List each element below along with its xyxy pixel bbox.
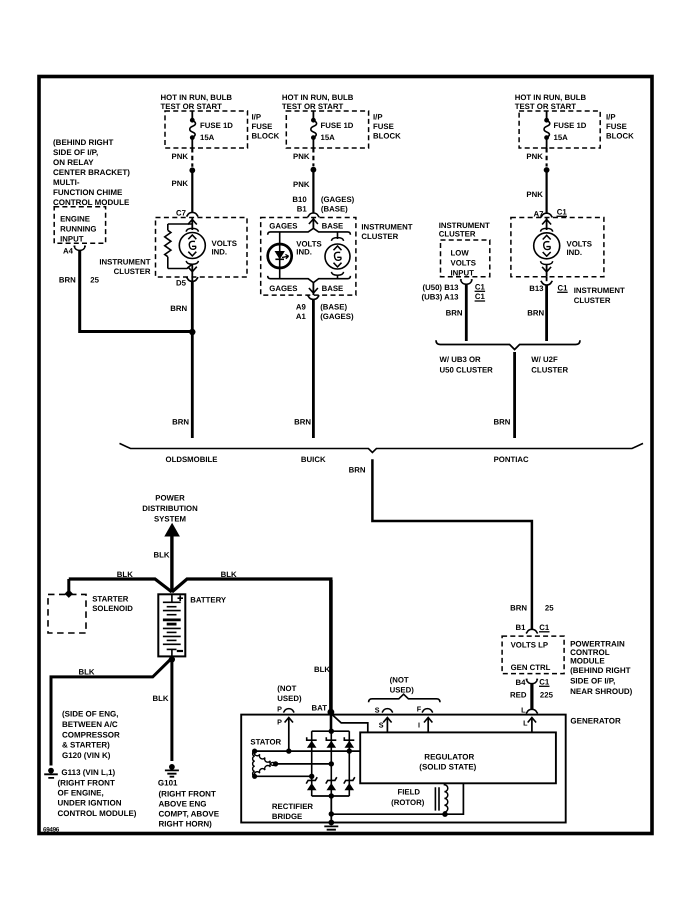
svg-text:CLUSTER: CLUSTER xyxy=(361,232,398,241)
svg-text:PNK: PNK xyxy=(526,190,543,199)
label VOLTS IND. (Olds) xyxy=(212,239,237,257)
brace S F not used xyxy=(369,694,440,702)
svg-text:USED): USED) xyxy=(277,694,302,703)
svg-text:BASE: BASE xyxy=(322,284,344,293)
label G120 block xyxy=(62,710,120,760)
svg-text:STATOR: STATOR xyxy=(250,738,281,747)
svg-text:& STARTER): & STARTER) xyxy=(62,741,110,750)
svg-text:B1: B1 xyxy=(516,623,527,632)
label C1 (A7) underlined xyxy=(557,208,568,217)
label FUSE 1D 15A (Pontiac) xyxy=(554,121,587,142)
svg-text:25: 25 xyxy=(545,604,554,613)
svg-text:BAT: BAT xyxy=(312,704,328,713)
svg-text:W/ UB3 OR: W/ UB3 OR xyxy=(440,355,482,364)
label REGULATOR (SOLID STATE) xyxy=(419,753,476,772)
label G101 block xyxy=(158,779,220,829)
svg-text:FUSE: FUSE xyxy=(373,122,394,131)
label (NOT USED) S F xyxy=(390,676,415,695)
fuse 1D 15A (Buick) xyxy=(311,111,317,148)
svg-text:BLK: BLK xyxy=(117,570,133,579)
svg-text:BLOCK: BLOCK xyxy=(373,132,401,141)
svg-text:(GAGES): (GAGES) xyxy=(320,312,354,321)
label circuit 25 xyxy=(90,276,99,285)
label F (outside) xyxy=(417,705,422,714)
svg-text:S: S xyxy=(375,706,380,715)
svg-text:I/P: I/P xyxy=(373,113,383,122)
svg-text:DISTRIBUTION: DISTRIBUTION xyxy=(142,504,198,513)
label VOLTS LP xyxy=(511,641,549,650)
svg-text:BRN: BRN xyxy=(59,276,76,285)
svg-text:PONTIAC: PONTIAC xyxy=(494,455,529,464)
svg-text:HOT IN RUN, BULB: HOT IN RUN, BULB xyxy=(515,93,587,102)
label PNK (Pontiac upper) xyxy=(526,152,543,161)
svg-text:(U50) B13: (U50) B13 xyxy=(423,283,460,292)
terminal F arrow xyxy=(424,718,432,733)
label I/P FUSE BLOCK (Olds) xyxy=(252,113,280,141)
label HOT IN RUN (Pontiac) xyxy=(515,93,587,111)
svg-text:COMPT, ABOVE: COMPT, ABOVE xyxy=(159,809,220,818)
svg-text:BETWEEN A/C: BETWEEN A/C xyxy=(62,720,118,729)
label VOLTS IND. (Buick) xyxy=(296,240,321,257)
wire BRN (low volts) xyxy=(465,284,468,341)
svg-text:CLUSTER: CLUSTER xyxy=(114,267,151,276)
svg-text:(ROTOR): (ROTOR) xyxy=(391,798,425,807)
starter solenoid box xyxy=(48,594,86,633)
svg-text:CLUSTER: CLUSTER xyxy=(531,366,568,375)
label RECTIFIER BRIDGE xyxy=(272,802,314,821)
svg-text:UNDER IGNTION: UNDER IGNTION xyxy=(58,799,122,808)
terminal S arrow xyxy=(383,718,391,733)
wire starter solenoid drop xyxy=(67,579,70,591)
wire PNK to cluster (Buick) xyxy=(312,170,314,213)
label C1 (B1) underlined xyxy=(539,623,550,632)
svg-text:MODULE: MODULE xyxy=(570,657,605,666)
connector C7 cup xyxy=(187,212,199,216)
svg-text:RUNNING: RUNNING xyxy=(60,225,96,234)
wire BLK right bus xyxy=(172,579,331,600)
low volts input box xyxy=(441,240,490,277)
svg-text:BLK: BLK xyxy=(152,694,168,703)
wire BRN to PCM xyxy=(372,459,532,629)
svg-text:HOT IN RUN, BULB: HOT IN RUN, BULB xyxy=(161,93,233,102)
arrow to power distribution xyxy=(164,523,180,537)
svg-text:A1: A1 xyxy=(296,312,307,321)
splice dot (Pontiac) xyxy=(544,167,550,173)
svg-text:C1: C1 xyxy=(557,208,568,217)
svg-text:(GAGES): (GAGES) xyxy=(321,195,355,204)
label BRN (Pontiac right) xyxy=(527,309,544,318)
wire BRN (Pontiac to main brace) xyxy=(513,352,516,438)
label BRN (A4) xyxy=(59,276,76,285)
svg-text:F: F xyxy=(417,705,422,714)
battery B1 xyxy=(158,594,185,656)
svg-text:L: L xyxy=(523,719,528,728)
label (NOT USED) P xyxy=(277,684,302,703)
svg-text:RECTIFIER: RECTIFIER xyxy=(272,802,314,811)
svg-text:C7: C7 xyxy=(176,209,186,218)
label PONTIAC xyxy=(494,455,529,464)
node field bottom xyxy=(442,812,447,817)
svg-text:BRN: BRN xyxy=(510,604,527,613)
label INSTRUMENT CLUSTER (Buick) xyxy=(361,223,412,242)
splice dot (Olds) xyxy=(189,167,195,173)
label I/P FUSE BLOCK (Pontiac) xyxy=(606,113,634,141)
bus bar top (Buick cluster) xyxy=(268,228,351,234)
svg-text:SIDE OF I/P,: SIDE OF I/P, xyxy=(570,677,615,686)
label A9 (BASE) xyxy=(296,303,348,312)
label P (inside) xyxy=(277,718,282,727)
label INSTRUMENT CLUSTER (Olds) xyxy=(99,258,150,277)
label A4 xyxy=(63,246,74,255)
border frame xyxy=(39,77,652,834)
connector D5 cup xyxy=(187,277,199,281)
wire dashed PNK (Olds) xyxy=(191,148,193,167)
ground G113 xyxy=(44,768,58,778)
wire exit arrow (Pontiac cluster) xyxy=(542,265,551,277)
svg-text:BRIDGE: BRIDGE xyxy=(272,812,302,821)
svg-text:VOLTS LP: VOLTS LP xyxy=(511,641,549,650)
chime module box xyxy=(54,207,105,244)
svg-text:(SOLID STATE): (SOLID STATE) xyxy=(419,763,476,772)
node phase C to diode column 1 xyxy=(309,774,314,779)
svg-text:INPUT: INPUT xyxy=(451,269,475,278)
wire PNK to cluster (Pontiac) xyxy=(545,170,547,213)
brace all makes xyxy=(120,443,644,452)
svg-text:PNK: PNK xyxy=(172,152,189,161)
ground generator xyxy=(324,820,338,830)
svg-text:BRN: BRN xyxy=(349,465,366,474)
svg-text:15A: 15A xyxy=(321,133,336,142)
svg-text:BLK: BLK xyxy=(314,665,330,674)
label G113 (VIN L,1) xyxy=(61,768,115,777)
label S (inside) xyxy=(379,721,384,730)
svg-text:C1: C1 xyxy=(558,284,569,293)
connector S cup xyxy=(382,709,393,713)
label FUSE 1D 15A (Olds) xyxy=(200,121,233,142)
diode top 1 xyxy=(307,737,317,748)
node bottom bus center xyxy=(329,793,334,798)
svg-text:C1: C1 xyxy=(539,678,550,687)
rectifier bottom bus xyxy=(312,795,350,797)
label multi-function chime module xyxy=(53,138,130,207)
svg-text:FUSE: FUSE xyxy=(606,122,627,131)
label I/P FUSE BLOCK (Buick) xyxy=(373,113,401,141)
label B1 (BASE) xyxy=(297,205,348,214)
svg-text:HOT IN RUN, BULB: HOT IN RUN, BULB xyxy=(282,93,354,102)
label FIELD (ROTOR) xyxy=(391,788,425,808)
diode bottom 1 xyxy=(306,777,317,790)
label HOT IN RUN (Olds) xyxy=(161,93,233,111)
svg-text:CENTER BRACKET): CENTER BRACKET) xyxy=(53,168,130,177)
svg-text:COMPRESSOR: COMPRESSOR xyxy=(62,730,120,739)
svg-text:REGULATOR: REGULATOR xyxy=(424,753,474,762)
label L (inside) xyxy=(523,719,528,728)
volts indicator bulb (Pontiac) xyxy=(534,228,560,264)
svg-text:PNK: PNK xyxy=(293,180,310,189)
svg-text:FUSE: FUSE xyxy=(252,122,273,131)
svg-text:L: L xyxy=(521,706,526,715)
label BLK (battery top) xyxy=(153,551,169,560)
svg-text:CONTROL MODULE: CONTROL MODULE xyxy=(53,198,130,207)
label BLK (G113 wire) xyxy=(79,668,95,677)
wire PNK to cluster (Olds) xyxy=(191,170,193,212)
svg-text:BRN: BRN xyxy=(527,309,544,318)
connector B4 Y xyxy=(526,679,538,683)
label A1 (GAGES) xyxy=(296,312,354,321)
instrument cluster box (Olds) xyxy=(156,218,248,278)
label P (outside) xyxy=(277,705,282,714)
label B4 xyxy=(516,678,527,687)
label (UB3) A13 C1 xyxy=(422,292,486,302)
wire field return xyxy=(331,783,463,814)
svg-text:(NOT: (NOT xyxy=(390,676,409,685)
field core lines xyxy=(435,787,439,810)
svg-text:GEN CTRL: GEN CTRL xyxy=(511,663,551,672)
svg-text:BLOCK: BLOCK xyxy=(606,132,634,141)
wire stator phase A xyxy=(255,750,361,752)
svg-text:TEST OR START: TEST OR START xyxy=(515,102,577,111)
diode bottom 3 xyxy=(344,777,355,790)
svg-text:RED: RED xyxy=(510,691,527,700)
svg-text:BASE: BASE xyxy=(322,222,344,231)
label BAT xyxy=(312,704,328,713)
diode column 3 wire xyxy=(348,731,350,796)
svg-text:FUSE 1D: FUSE 1D xyxy=(200,121,233,130)
label RED 225 xyxy=(510,691,554,700)
instrument cluster box (Pontiac) xyxy=(511,218,604,277)
label W/ U2F CLUSTER xyxy=(531,355,568,375)
diode top 3 xyxy=(344,737,354,748)
label BRN (low volts) xyxy=(446,309,463,318)
diode column 2 wire xyxy=(330,731,332,796)
label GEN CTRL xyxy=(511,663,551,672)
svg-text:P: P xyxy=(277,705,282,714)
svg-text:W/ U2F: W/ U2F xyxy=(531,355,558,364)
wire bridge to ground xyxy=(330,796,332,823)
rectifier top bus xyxy=(312,730,350,732)
connector low volts Y xyxy=(460,280,473,284)
wire stator phase C xyxy=(255,775,312,777)
svg-text:IND.: IND. xyxy=(567,248,583,257)
svg-text:SIDE OF I/P,: SIDE OF I/P, xyxy=(53,148,98,157)
svg-text:SOLENOID: SOLENOID xyxy=(92,604,133,613)
svg-text:BRN: BRN xyxy=(172,418,189,427)
connector L cup xyxy=(526,709,538,713)
label B10 (GAGES) xyxy=(292,195,354,204)
fuse block box (Olds) xyxy=(165,111,248,148)
svg-text:(RIGHT FRONT: (RIGHT FRONT xyxy=(58,779,115,788)
label BATTERY xyxy=(190,596,227,605)
terminal P arrow xyxy=(285,718,293,752)
svg-text:PNK: PNK xyxy=(172,179,189,188)
svg-text:B10: B10 xyxy=(292,195,307,204)
node phase B to diode column 2 xyxy=(329,761,334,766)
svg-text:BRN: BRN xyxy=(446,309,463,318)
svg-text:CONTROL MODULE): CONTROL MODULE) xyxy=(58,809,137,818)
wire entry arrow (Buick cluster) xyxy=(309,218,318,229)
label BLK (BAT wire) xyxy=(314,665,330,674)
label PNK (Olds lower) xyxy=(172,179,189,188)
svg-text:INPUT: INPUT xyxy=(60,235,84,244)
wire RED 225 xyxy=(530,684,533,710)
svg-text:RIGHT HORN): RIGHT HORN) xyxy=(159,820,213,829)
label STATOR xyxy=(250,738,281,747)
connector exit cup (Buick) xyxy=(308,295,320,299)
terminal L arrow xyxy=(528,718,536,733)
svg-text:P: P xyxy=(277,718,282,727)
fuse block box (Pontiac) xyxy=(519,111,600,148)
svg-text:TEST OR START: TEST OR START xyxy=(161,102,223,111)
label PNK (Olds upper) xyxy=(172,152,189,161)
svg-text:(RIGHT FRONT: (RIGHT FRONT xyxy=(159,789,216,798)
label FUSE 1D 15A (Buick) xyxy=(321,121,354,142)
fuse block box (Buick) xyxy=(286,111,368,148)
svg-text:I/P: I/P xyxy=(252,113,262,122)
svg-text:15A: 15A xyxy=(554,133,569,142)
svg-text:ON RELAY: ON RELAY xyxy=(53,158,94,167)
svg-text:BLK: BLK xyxy=(79,668,95,677)
wire BRN (Pontiac right) xyxy=(545,285,548,341)
label BUICK xyxy=(301,455,326,464)
svg-text:ENGINE: ENGINE xyxy=(60,215,90,224)
svg-text:BRN: BRN xyxy=(493,418,510,427)
label BRN (Buick lower) xyxy=(294,418,311,427)
svg-text:I: I xyxy=(418,721,420,730)
svg-text:15A: 15A xyxy=(200,133,215,142)
svg-text:VOLTS: VOLTS xyxy=(451,259,476,268)
connector F cup xyxy=(422,709,433,713)
svg-text:INSTRUMENT: INSTRUMENT xyxy=(99,258,150,267)
svg-text:(BASE): (BASE) xyxy=(320,303,347,312)
label BLK (G101 wire) xyxy=(152,694,168,703)
label ENGINE RUNNING INPUT xyxy=(60,215,96,244)
svg-text:IND.: IND. xyxy=(212,248,228,257)
label BRN (main) xyxy=(349,465,366,474)
svg-text:FUSE 1D: FUSE 1D xyxy=(321,121,354,130)
regulator box xyxy=(360,732,556,783)
diagram number 69496 xyxy=(43,827,60,834)
label (U50) B13 C1 xyxy=(423,283,486,293)
svg-text:C1: C1 xyxy=(475,292,486,301)
label I (inside) xyxy=(418,721,420,730)
brace Pontiac clusters xyxy=(436,340,580,349)
label BLK (right bus) xyxy=(221,570,237,579)
connector B1 cup (PCM) xyxy=(526,629,538,633)
svg-text:B13: B13 xyxy=(529,284,544,293)
wire entry arrow (Pontiac cluster) xyxy=(542,218,551,231)
svg-text:BRN: BRN xyxy=(170,304,187,313)
wire BRN (Buick down to brace) xyxy=(312,299,315,438)
generator box xyxy=(241,715,566,823)
node phase A to diode column 3 xyxy=(347,748,352,753)
node BAT terminal xyxy=(328,709,335,716)
label STARTER SOLENOID xyxy=(92,595,133,614)
svg-text:BUICK: BUICK xyxy=(301,455,326,464)
svg-text:BRN: BRN xyxy=(294,418,311,427)
label PNK (Buick upper) xyxy=(293,152,310,161)
svg-text:69496: 69496 xyxy=(43,827,60,834)
svg-text:IND.: IND. xyxy=(296,248,312,257)
svg-text:OF ENGINE,: OF ENGINE, xyxy=(58,789,104,798)
node field tap xyxy=(329,811,334,816)
node starter solenoid xyxy=(65,590,73,598)
label HOT IN RUN (Buick) xyxy=(282,93,354,111)
svg-text:D5: D5 xyxy=(176,279,187,288)
diode top 2 xyxy=(326,737,336,748)
label L (generator terminal) xyxy=(521,706,526,715)
label C1 (B4) underlined xyxy=(539,678,550,687)
svg-text:TEST OR START: TEST OR START xyxy=(282,102,344,111)
svg-text:GAGES: GAGES xyxy=(269,284,297,293)
svg-text:BLOCK: BLOCK xyxy=(252,132,280,141)
volts indicator bulb (Buick base) xyxy=(325,232,350,279)
svg-text:USED): USED) xyxy=(390,685,415,694)
connector P cup xyxy=(283,709,294,713)
wire entry arrow (Olds cluster) xyxy=(188,218,197,231)
svg-text:POWER: POWER xyxy=(155,494,185,503)
svg-text:FIELD: FIELD xyxy=(398,788,421,797)
svg-text:U50 CLUSTER: U50 CLUSTER xyxy=(440,366,494,375)
fuse 1D 15A (Pontiac) xyxy=(544,111,550,148)
label PNK (Pontiac lower) xyxy=(526,190,543,199)
label BRN 25 (PCM wire) xyxy=(510,604,554,613)
svg-text:CLUSTER: CLUSTER xyxy=(439,229,476,238)
ground G101 xyxy=(165,764,179,777)
label POWERTRAIN CONTROL MODULE xyxy=(570,640,633,697)
svg-text:C1: C1 xyxy=(475,283,486,292)
svg-text:PNK: PNK xyxy=(293,152,310,161)
label GAGES BASE (top) xyxy=(269,222,343,231)
LED volts indicator (Buick) xyxy=(268,244,292,268)
svg-text:I/P: I/P xyxy=(606,113,616,122)
svg-text:(UB3) A13: (UB3) A13 xyxy=(422,293,460,302)
svg-text:(SIDE OF ENG,: (SIDE OF ENG, xyxy=(62,710,118,719)
wire BLK to BAT terminal xyxy=(329,580,333,711)
connector A4 Y xyxy=(74,246,86,250)
svg-text:G101: G101 xyxy=(158,779,178,788)
wire stator phase B xyxy=(276,763,332,765)
svg-text:(BEHIND RIGHT: (BEHIND RIGHT xyxy=(53,138,114,147)
splice dot (Buick) xyxy=(311,167,317,173)
junction node A4/BRN xyxy=(189,329,195,335)
svg-text:A9: A9 xyxy=(296,303,307,312)
svg-text:G113 (VIN L,1): G113 (VIN L,1) xyxy=(61,768,115,777)
svg-text:FUSE 1D: FUSE 1D xyxy=(554,121,587,130)
svg-text:ABOVE ENG: ABOVE ENG xyxy=(159,799,207,808)
connector B1 cup xyxy=(308,213,320,217)
label G113 location block xyxy=(58,779,137,818)
wire BLK left bus xyxy=(69,579,172,592)
field coil xyxy=(444,783,447,813)
label INSTRUMENT CLUSTER (Pontiac right) xyxy=(574,286,625,305)
wire BAT to regulator xyxy=(331,714,368,732)
instrument cluster box (Buick) xyxy=(261,218,356,296)
svg-text:25: 25 xyxy=(90,276,99,285)
wire BLK battery to arrow xyxy=(170,536,173,592)
wire exit arrow (Olds cluster) xyxy=(188,264,197,277)
svg-text:BLK: BLK xyxy=(153,551,169,560)
label BLK (left bus) xyxy=(117,570,133,579)
svg-text:GAGES: GAGES xyxy=(269,222,297,231)
stator windings xyxy=(252,749,278,779)
label B1 (PCM) xyxy=(516,623,527,632)
svg-text:B4: B4 xyxy=(516,678,527,687)
node battery negative xyxy=(169,656,175,662)
svg-text:CLUSTER: CLUSTER xyxy=(574,296,611,305)
label INSTRUMENT CLUSTER (low volts) xyxy=(439,221,490,238)
node top bus center xyxy=(329,711,334,734)
label C1 (B13) underlined xyxy=(558,284,569,293)
